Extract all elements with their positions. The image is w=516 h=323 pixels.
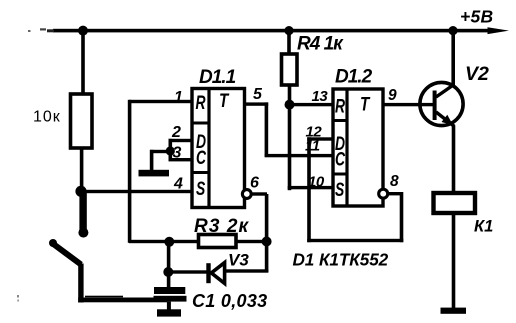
resistor R1 10к [71,94,93,148]
resistor R3 [199,235,237,248]
switch SB1 lever [49,239,81,265]
wire: switch to C1 bottom plate [78,296,167,303]
svg-text:C1 0,033: C1 0,033 [192,291,267,311]
junction: rail / R4 [284,26,293,35]
wire: V2 collector to rail [451,31,455,85]
wire: feedback right vertical [400,192,404,242]
svg-text:9: 9 [388,87,397,104]
wire: pin 8 output [388,192,402,195]
wire: +5V top rail [28,28,488,32]
wire: V3 anode [168,270,210,273]
wire: feedback to R3 left [129,240,199,243]
svg-text:4: 4 [173,176,183,193]
diode V3 [206,263,224,284]
svg-text:T: T [219,89,230,111]
svg-text:S: S [196,178,205,200]
wire: pin 13 R input [290,103,334,106]
ground: below C1 [157,302,181,317]
svg-text:R: R [335,95,345,117]
wire: pin 12 D input [307,137,333,140]
svg-text:C: C [335,148,346,170]
wire: pin 9 output to V2 base [383,103,434,106]
svg-text:R: R [196,92,206,114]
svg-text:V3: V3 [228,251,249,270]
wire: node A to pin 4 S input [81,190,193,193]
svg-text:C: C [196,147,207,169]
junction: node A (R1 / switch / S-input) [75,186,86,197]
wire: V3 anode to node B [224,269,268,272]
wire: feedback bottom run [307,239,403,242]
svg-text:8: 8 [390,173,399,190]
capacitor C1 [154,287,187,302]
wire: R3 right to node B [236,240,268,243]
wire: rail to R1 top [81,31,85,93]
svg-text:R3 2к: R3 2к [194,216,250,237]
svg-text:S: S [335,179,344,201]
svg-text:V2: V2 [465,63,489,85]
wire: V2 emitter to K1 [452,126,456,192]
switch SB1 fixed contact [78,191,88,238]
wire: pin 2 D input [169,139,193,142]
wire: pin 5 output to D1.2 C input [244,102,333,157]
svg-text:+5В: +5В [460,7,494,27]
svg-text:13: 13 [312,88,329,105]
resistor R4 [282,31,298,105]
wire: ground branch [150,150,171,171]
wire: pin 3 C input [169,158,193,161]
junction: rail / V2 collector [448,26,457,35]
wire: C1 branch vertical [167,241,171,288]
svg-text:5: 5 [253,86,263,103]
svg-text:2: 2 [171,124,181,141]
wire: pin1 R feedback vertical [128,100,132,243]
wire: pin 1 R input [129,100,192,103]
junction: C1 / V3 anode [163,267,173,277]
junction: rail / R1 [78,26,88,36]
svg-text:К1: К1 [474,218,493,236]
power rail arrow [488,27,510,34]
transistor V2 [420,82,463,126]
junction: R4 bottom / pin13 [285,100,295,110]
wire: switch bottom leg [78,264,83,303]
svg-text:R4 1к: R4 1к [297,34,344,55]
svg-text:D1.1: D1.1 [199,67,236,88]
ground: pins 2-3 [139,170,170,177]
svg-text:10к: 10к [33,109,61,126]
wire: K1 to ground [452,213,456,308]
wire: pin2-pin3 link [169,139,173,160]
junction: R3-left / C1 branch [164,237,174,247]
pin 6 inversion circle [242,190,251,199]
wire: R4 node to pin 10 S input [288,105,333,191]
scan speck [17,295,19,298]
pin 8 inversion circle [379,189,388,198]
relay K1 coil [434,193,476,213]
op D1.1 box [192,89,245,208]
svg-text:D1.2: D1.2 [335,67,373,88]
wire: pin 6 to node B vertical [265,194,269,272]
wire: R1 bottom to node A [80,148,84,191]
svg-text:1: 1 [174,89,183,106]
junction: pins 2-3 / ground branch [166,146,175,155]
junction: node B (R3 / pin6 / V3) [262,237,272,247]
op D1.2 box [333,89,383,206]
svg-text:6: 6 [250,175,259,192]
wire: pin 6 output to node B [251,192,267,195]
svg-text:D1 К1ТК552: D1 К1ТК552 [293,250,389,270]
ground: below K1 [441,308,467,314]
wire: pin12 to feedback vertical [307,137,311,242]
svg-text:11: 11 [305,138,320,155]
svg-text:T: T [360,93,371,115]
